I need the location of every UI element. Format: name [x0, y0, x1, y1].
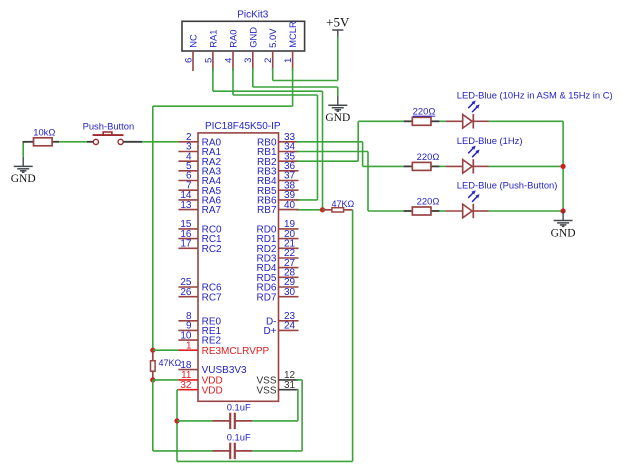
R3 label 47K: [159, 358, 182, 368]
svg-text:31: 31: [284, 380, 296, 391]
wire D1 to gnd rail: [489, 120, 564, 122]
U1 pin 6 RA4 stub: [178, 180, 198, 182]
U1 pin 37 RB4 stub: [279, 180, 299, 182]
U1 pin number 20: [284, 229, 296, 240]
R6 label 220: [417, 195, 440, 206]
connector J1 pin 6 NC stub: [192, 51, 194, 71]
svg-text:1: 1: [186, 340, 192, 351]
wire RA0(PGD) to RB6: [233, 68, 318, 200]
U1 pin name RE1: [202, 326, 222, 337]
svg-text:MCLR: MCLR: [287, 21, 298, 48]
svg-text:LED-Blue (1Hz): LED-Blue (1Hz): [457, 135, 523, 146]
U1 pin name RB5: [257, 186, 277, 197]
connector J1 pin number 1: [283, 58, 294, 63]
svg-text:220Ω: 220Ω: [413, 106, 436, 117]
U1 pin 25 RC6 stub: [178, 286, 198, 288]
svg-text:+5V: +5V: [326, 15, 350, 30]
U1 pin name RB0: [257, 137, 277, 148]
wire R2 to VDD net: [177, 210, 353, 462]
svg-text:30: 30: [284, 287, 296, 298]
wire D2 to gnd rail: [489, 165, 564, 167]
connector J1 pin name GND: [247, 27, 258, 48]
svg-text:RC7: RC7: [202, 292, 222, 303]
U1 pin name RA6: [202, 196, 222, 207]
wire GND pin to ground: [253, 68, 338, 96]
U1 pin name RC2: [202, 244, 222, 255]
U1 pin 36 RB3 stub: [279, 170, 299, 172]
svg-text:2: 2: [263, 58, 274, 63]
svg-text:GND: GND: [325, 112, 350, 124]
R5 label 220: [417, 151, 440, 162]
U1 pin number 27: [284, 258, 296, 269]
wire RB2 to LED1: [297, 121, 404, 161]
LED D1: [463, 114, 474, 128]
wire 5.0V to +5V: [273, 37, 338, 81]
node rail-led3 junction: [561, 208, 566, 213]
U1 pin 2 RA0 stub: [178, 141, 198, 143]
U1 pin name RC1: [202, 234, 222, 245]
power +5V symbol: [326, 15, 350, 37]
svg-text:24: 24: [284, 321, 296, 332]
svg-text:47KΩ: 47KΩ: [332, 199, 355, 209]
U1 pin name RD4: [256, 263, 276, 274]
U1 pin number 9: [186, 321, 192, 332]
U1 pin name RE2: [202, 336, 222, 347]
U1 pin 22 RD3 stub: [279, 257, 299, 259]
LED D3 label: [457, 179, 558, 190]
U1 pin number 31: [284, 380, 296, 391]
U1 pin name RB6: [257, 196, 277, 207]
U1 pin number 25: [180, 277, 192, 288]
U1 pin 23 D- stub: [279, 320, 299, 322]
U1 pin name D-: [266, 316, 277, 327]
U1 pin 8 RE0 stub: [178, 320, 198, 322]
U1 pin name VSS: [256, 376, 276, 387]
svg-text:40: 40: [284, 200, 296, 211]
wire R1 to SW1: [59, 141, 87, 143]
LED D3 arrows: [468, 190, 479, 202]
wire R3 to VDD pin11: [153, 379, 179, 381]
svg-text:3: 3: [243, 58, 254, 63]
U1 pin name RD6: [256, 283, 276, 294]
wire MCLR to RE3 pin: [153, 349, 179, 351]
LED D2 anode lead: [446, 165, 463, 167]
svg-text:PicKit3: PicKit3: [237, 10, 269, 21]
wire C2 to VSS12: [253, 380, 302, 451]
svg-text:GND: GND: [551, 227, 576, 239]
svg-text:RB7: RB7: [257, 205, 277, 216]
U1 pin number 17: [180, 239, 192, 250]
U1 pin number 21: [284, 239, 296, 250]
U1 pin number 39: [284, 190, 296, 201]
U1 pin 40 RB7 stub: [279, 209, 299, 211]
svg-text:0.1uF: 0.1uF: [227, 402, 251, 413]
svg-text:NC: NC: [188, 34, 199, 48]
C2 label 0.1uF: [227, 432, 251, 443]
U1 pin 15 RC0 stub: [178, 228, 198, 230]
svg-text:6: 6: [183, 58, 194, 63]
LED D1 anode lead: [446, 120, 463, 122]
U1 pin number 26: [180, 287, 192, 298]
U1 pin name RA4: [202, 176, 222, 187]
svg-text:VSS: VSS: [256, 385, 276, 396]
node rail-led2 junction: [561, 164, 566, 169]
svg-text:D+: D+: [263, 326, 276, 337]
node VDD-R3 junction: [150, 377, 155, 382]
wire C1 to VSS31: [253, 390, 298, 421]
U1 pin 21 RD2 stub: [279, 247, 299, 249]
wire RA1(PGC) to RB7: [213, 68, 323, 210]
wire R6 to LED D3: [439, 210, 446, 212]
svg-text:GND: GND: [247, 27, 258, 48]
U1 pin 18 VUSB3V3 stub: [178, 369, 198, 371]
svg-text:17: 17: [180, 239, 192, 250]
U1 pin 7 RA5 stub: [178, 189, 198, 191]
U1 pin 16 RC1 stub: [178, 238, 198, 240]
U1 pin name RB4: [257, 176, 277, 187]
U1 pin number 10: [180, 330, 192, 341]
U1 pin number 11: [181, 370, 192, 381]
svg-text:GND: GND: [11, 173, 36, 185]
U1 pin 32 VDD stub: [178, 389, 198, 391]
wire MCLR to RE3: [153, 68, 293, 350]
U1 pin number 35: [284, 151, 296, 162]
LED D2 arrows: [468, 146, 479, 158]
U1 pin number 4: [186, 151, 192, 162]
node MCLR junction: [150, 348, 155, 353]
connector J1 pin number 2: [263, 58, 274, 63]
U1 pin 27 RD4 stub: [279, 267, 299, 269]
svg-text:220Ω: 220Ω: [417, 151, 440, 162]
U1 pin name D+: [263, 326, 276, 337]
wire R5 to LED D2: [439, 165, 446, 167]
ground GND top (PicKit3): [325, 96, 350, 124]
U1 pin number 18: [180, 360, 192, 371]
wire RB7 to R2: [323, 209, 325, 211]
U1 pin name RD3: [256, 254, 276, 265]
svg-text:RA7: RA7: [202, 205, 222, 216]
wire VDD net down to C2: [153, 380, 213, 451]
U1 pin 4 RA2 stub: [178, 160, 198, 162]
C1 label 0.1uF: [227, 402, 251, 413]
connector J1 pin 5 RA1 stub: [212, 51, 214, 71]
U1 pin name RC0: [202, 225, 222, 236]
svg-text:13: 13: [180, 200, 192, 211]
svg-text:RC2: RC2: [202, 244, 222, 255]
svg-text:Push-Button: Push-Button: [83, 120, 135, 131]
SW1 label Push-Button: [83, 120, 135, 131]
connector J1 pin 2 5.0V stub: [272, 51, 274, 71]
U1 pin number 15: [180, 219, 192, 230]
U1 pin number 30: [284, 287, 296, 298]
node RB7 junction: [320, 207, 325, 212]
wire RB1 to LED3: [297, 152, 404, 212]
connector J1 pin 1 MCLR stub: [292, 51, 294, 71]
U1 pin name RD7: [256, 292, 276, 303]
U1 pin 28 RD5 stub: [279, 276, 299, 278]
U1 pin 31 VSS stub: [279, 389, 299, 391]
connector J1 pin 4 RA0 stub: [232, 51, 234, 71]
U1 pin 3 RA1 stub: [178, 151, 198, 153]
U1 pin number 8: [186, 311, 192, 322]
U1 pin number 23: [284, 311, 296, 322]
U1 pin 19 RD0 stub: [279, 228, 299, 230]
resistor R4 220: [403, 117, 439, 125]
U1 pin name RB1: [257, 147, 277, 158]
U1 pin number 38: [284, 180, 296, 191]
U1 pin 38 RB5 stub: [279, 189, 299, 191]
R2 label 47K: [332, 199, 355, 209]
LED D3: [463, 204, 474, 218]
svg-text:5.0V: 5.0V: [267, 28, 278, 48]
U1 pin 10 RE2 stub: [178, 339, 198, 341]
U1 pin 30 RD7 stub: [279, 296, 299, 298]
connector J1 pin number 4: [223, 57, 234, 63]
U1 pin name RA5: [202, 186, 222, 197]
svg-text:VDD: VDD: [202, 385, 223, 396]
U1 pin name RA3: [202, 166, 222, 177]
node VDD-C1 junction: [174, 418, 179, 423]
connector J1 pin number 5: [203, 58, 214, 63]
wire gnd rail right: [562, 121, 564, 211]
U1 pin 35 RB2 stub: [279, 160, 299, 162]
resistor R3 47K vertical: [151, 352, 156, 379]
U1 pin number 37: [284, 171, 296, 182]
U1 pin number 1: [186, 340, 192, 351]
connector J1 pin name NC: [188, 34, 199, 48]
ground GND left: [11, 142, 36, 185]
U1 pin name VDD: [202, 376, 223, 387]
U1 pin name RC7: [202, 292, 222, 303]
U1 pin name RA0: [202, 137, 222, 148]
U1 pin number 19: [284, 219, 296, 230]
R1 label 10k: [33, 126, 55, 137]
U1 pin number 2: [186, 132, 192, 143]
U1 pin number 29: [284, 277, 296, 288]
U1 pin name RD2: [256, 244, 276, 255]
U1 pin number 12: [284, 370, 296, 381]
U1 pin name VUSB3V3: [202, 365, 247, 376]
svg-text:10kΩ: 10kΩ: [33, 126, 55, 137]
capacitor C2 0.1uF: [213, 443, 253, 459]
U1 pin 1 RE3MCLRVPP stub: [178, 349, 198, 351]
U1 pin 39 RB6 stub: [279, 199, 299, 201]
U1 pin number 34: [284, 142, 296, 153]
LED D2: [463, 159, 474, 173]
U1 pin 13 RA7 stub: [178, 209, 198, 211]
wire GND to R1: [23, 141, 28, 143]
svg-text:RE3MCLRVPP: RE3MCLRVPP: [202, 346, 270, 357]
svg-text:26: 26: [180, 287, 192, 298]
U1 pin name RA1: [202, 147, 222, 158]
U1 pin name RB7: [257, 205, 277, 216]
U1 pin number 28: [284, 268, 296, 279]
svg-text:5: 5: [203, 58, 214, 63]
LED D2 cathode lead: [473, 165, 488, 167]
connector J1 label PicKit3: [237, 10, 269, 21]
push-button SW1: [87, 132, 142, 144]
U1 pin number 33: [284, 132, 296, 143]
svg-text:RA1: RA1: [207, 30, 218, 48]
svg-text:220Ω: 220Ω: [417, 195, 440, 206]
svg-text:LED-Blue (10Hz in ASM & 15Hz i: LED-Blue (10Hz in ASM & 15Hz in C): [457, 90, 613, 101]
U1 pin name RE3MCLRVPP: [202, 346, 270, 357]
connector J1 pin name 5.0V: [267, 28, 278, 48]
resistor R5 220: [403, 162, 439, 170]
wire SW1 to RA0: [142, 141, 178, 143]
U1 pin name RB3: [257, 166, 277, 177]
connector J1 pin name MCLR: [287, 21, 298, 48]
U1 pin name RB2: [257, 157, 277, 168]
U1 pin name RD5: [256, 273, 276, 284]
U1 pin name RA7: [202, 205, 222, 216]
U1 pin number 32: [180, 380, 192, 391]
U1 pin name VDD: [202, 385, 223, 396]
svg-text:32: 32: [180, 380, 192, 391]
U1 pin name RD0: [256, 225, 276, 236]
U1 pin name RE0: [202, 316, 222, 327]
U1 pin number 14: [180, 190, 192, 201]
U1 pin 34 RB1 stub: [279, 151, 299, 153]
U1 label PIC18F45K50-IP: [205, 121, 281, 132]
resistor R6 220: [403, 207, 439, 215]
op-amp U1 PIC18F45K50 body: [198, 133, 279, 401]
svg-text:1: 1: [283, 58, 294, 63]
U1 pin name RA2: [202, 157, 222, 168]
U1 pin name VSS: [256, 385, 276, 396]
U1 pin 29 RD6 stub: [279, 286, 299, 288]
svg-text:LED-Blue (Push-Button): LED-Blue (Push-Button): [457, 179, 558, 190]
connector J1 pin number 3: [243, 58, 254, 63]
U1 pin name RC6: [202, 283, 222, 294]
U1 pin number 5: [186, 161, 192, 172]
svg-text:0.1uF: 0.1uF: [227, 432, 251, 443]
U1 pin number 7: [186, 180, 192, 191]
connector J1 pin name RA1: [207, 30, 218, 48]
U1 pin 24 D+ stub: [279, 329, 299, 331]
LED D3 cathode lead: [473, 210, 488, 212]
ground GND right: [551, 211, 576, 239]
svg-text:PIC18F45K50-IP: PIC18F45K50-IP: [205, 121, 281, 132]
U1 pin number 22: [284, 248, 296, 259]
connector J1 pin 3 GND stub: [252, 51, 254, 71]
U1 pin number 40: [284, 200, 296, 211]
svg-text:47KΩ: 47KΩ: [159, 358, 182, 368]
LED D3 anode lead: [446, 210, 463, 212]
connector J1 pin number 6: [183, 58, 194, 63]
resistor R1 10k: [24, 138, 59, 146]
svg-text:4: 4: [223, 57, 234, 63]
U1 pin 12 VSS stub: [279, 379, 299, 381]
U1 pin number 6: [186, 171, 192, 182]
svg-text:RA0: RA0: [228, 30, 239, 48]
U1 pin 20 RD1 stub: [279, 238, 299, 240]
LED D1 cathode lead: [473, 120, 488, 122]
U1 pin 33 RB0 stub: [279, 141, 299, 143]
connector J1 PicKit3 body: [182, 21, 305, 51]
wire D3 to gnd rail: [489, 210, 564, 212]
LED D1 arrows: [468, 101, 479, 113]
connector J1 pin name RA0: [228, 30, 239, 48]
wire R4 to LED D1: [439, 120, 446, 122]
wire RB0 to LED2: [297, 142, 404, 167]
LED D1 label: [457, 90, 613, 101]
U1 pin 26 RC7 stub: [178, 296, 198, 298]
U1 pin number 3: [186, 142, 192, 153]
U1 pin 14 RA6 stub: [178, 199, 198, 201]
U1 pin 11 VDD stub: [178, 379, 198, 381]
LED D2 label: [457, 135, 523, 146]
U1 pin 5 RA3 stub: [178, 170, 198, 172]
resistor R2 47K: [324, 208, 353, 212]
wire VDD pin32 down: [177, 390, 178, 462]
capacitor C1 0.1uF: [213, 413, 253, 429]
svg-text:RD7: RD7: [256, 292, 276, 303]
R4 label 220: [413, 106, 436, 117]
U1 pin number 36: [284, 161, 296, 172]
U1 pin 17 RC2 stub: [178, 247, 198, 249]
U1 pin number 13: [180, 200, 192, 211]
wire node to C1: [177, 420, 213, 422]
U1 pin number 24: [284, 321, 296, 332]
U1 pin 9 RE1 stub: [178, 329, 198, 331]
U1 pin number 16: [180, 229, 192, 240]
U1 pin name RD1: [256, 234, 276, 245]
